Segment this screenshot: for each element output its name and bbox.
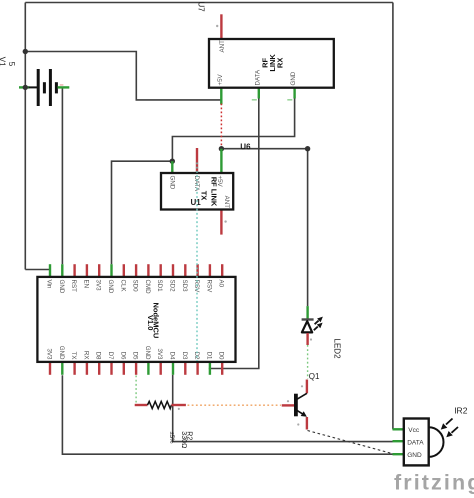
NodeMCU top pin 3V3 xyxy=(98,264,100,277)
svg-text:CMD: CMD xyxy=(144,280,151,295)
resistor R2 330 ohm xyxy=(135,401,193,448)
wire right +5V drop to IR2 Vcc xyxy=(392,3,394,430)
wire RF RX DATA down to NodeMCU D1 xyxy=(209,98,259,369)
svg-text:5: 5 xyxy=(7,62,16,67)
NodeMCU bottom pin D5 xyxy=(135,362,137,375)
junction node TX GND xyxy=(170,159,175,164)
svg-text:TX: TX xyxy=(70,352,77,360)
R2 pin mark xyxy=(178,408,180,410)
RF LINK TX module U1 xyxy=(161,148,233,235)
battery left lead xyxy=(29,86,38,88)
IR2 Vcc pin xyxy=(393,428,404,430)
svg-text:V1: V1 xyxy=(0,57,6,67)
battery plate short 1 xyxy=(43,82,46,93)
TX ANT pin xyxy=(220,210,222,235)
wire NodeMCU D4 to IR2 DATA xyxy=(173,375,393,442)
svg-text:GND: GND xyxy=(407,452,422,459)
R2 right lead xyxy=(171,404,186,406)
NodeMCU bottom pin D3 xyxy=(184,362,186,375)
wire down to LED2 anode xyxy=(307,149,309,306)
svg-text:3V3: 3V3 xyxy=(46,348,53,360)
svg-text:TX: TX xyxy=(200,191,209,201)
svg-text:GND: GND xyxy=(144,346,151,360)
Q1 bar xyxy=(294,394,298,417)
battery plate long 2 xyxy=(49,69,52,106)
svg-text:3V3: 3V3 xyxy=(156,348,163,360)
TX +5V pin xyxy=(220,149,222,173)
ratsnest green NodeMCU D5 to R2 xyxy=(135,376,137,404)
svg-text:ANT: ANT xyxy=(223,196,230,209)
svg-text:D8: D8 xyxy=(95,352,102,360)
R2 left lead xyxy=(135,404,148,406)
NodeMCU bottom pin D8 xyxy=(98,362,100,375)
NodeMCU bottom pin D0 xyxy=(221,362,223,375)
junction node U6 right xyxy=(305,146,310,151)
Q1 base pin xyxy=(282,404,294,406)
RF LINK RX module U7 xyxy=(197,2,334,105)
wire battery+ to Vin xyxy=(25,269,50,271)
NodeMCU bottom pin D1 xyxy=(209,362,211,375)
Q1 collector pin xyxy=(306,380,308,394)
svg-text:IR2: IR2 xyxy=(454,406,468,416)
NodeMCU bottom pin D2 xyxy=(196,362,198,375)
LED2 light arrow 2 xyxy=(314,327,318,331)
wire left vertical battery+ xyxy=(24,3,26,270)
svg-text:D7: D7 xyxy=(107,352,114,360)
svg-text:Vcc: Vcc xyxy=(408,427,420,434)
svg-text:330Ω: 330Ω xyxy=(180,431,187,448)
NodeMCU top pin RSV2 xyxy=(209,264,211,277)
svg-text:EN: EN xyxy=(82,280,89,289)
NodeMCU top pin A0 xyxy=(221,264,223,277)
ratsnest orange R2 to Q1 base xyxy=(188,404,281,406)
svg-text:RST: RST xyxy=(70,280,77,293)
TX ANT pin mark xyxy=(224,220,226,222)
NodeMCU top pin EN xyxy=(86,264,88,277)
NodeMCU top pin CLK xyxy=(123,264,125,277)
RX body box xyxy=(209,39,334,88)
svg-text:D3: D3 xyxy=(181,352,188,360)
NodeMCU bottom pin D4 xyxy=(172,362,174,375)
battery right green terminal xyxy=(58,86,70,88)
LED2 xyxy=(302,306,342,359)
svg-text:RSV: RSV xyxy=(205,280,212,294)
NodeMCU bottom pin 3V32 xyxy=(159,362,161,375)
battery left green terminal xyxy=(19,86,29,88)
svg-text:SD1: SD1 xyxy=(156,280,163,293)
TX DATA pin xyxy=(196,148,198,173)
NodeMCU top pin SD2 xyxy=(172,264,174,277)
svg-text:±5%: ±5% xyxy=(168,432,174,445)
NodeMCU bottom pin D6 xyxy=(123,362,125,375)
IR2 arrow 2 xyxy=(452,427,459,433)
LED2 light arrow 1 xyxy=(315,321,319,325)
RX ANT pin xyxy=(220,14,222,39)
NodeMCU bottom pin GND xyxy=(61,362,63,375)
Q1 emitter diagonal xyxy=(296,410,303,414)
IR2 arrow 1 xyxy=(446,419,453,425)
NodeMCU top pin Vin xyxy=(49,264,51,277)
ratsnest cyan TX DATA to NodeMCU D2 xyxy=(196,163,198,362)
svg-text:SD3: SD3 xyxy=(181,280,188,293)
svg-text:CLK: CLK xyxy=(119,280,126,293)
svg-text:D6: D6 xyxy=(119,352,126,360)
LED2 pin mark xyxy=(310,338,312,340)
battery plate long 1 xyxy=(37,69,40,106)
NodeMCU V1.0 module xyxy=(37,264,235,375)
IR2 body box xyxy=(404,419,429,466)
NodeMCU bottom pin GND2 xyxy=(147,362,149,375)
svg-text:GND: GND xyxy=(107,280,114,294)
LED2 cathode bar xyxy=(302,318,314,320)
Q1 emitter arrowhead xyxy=(301,411,307,417)
svg-text:RX: RX xyxy=(82,351,89,360)
junction node U6 left xyxy=(219,146,224,151)
TX GND pin xyxy=(171,161,173,173)
NodeMCU top pin SD1 xyxy=(159,264,161,277)
svg-text:D1: D1 xyxy=(205,352,212,360)
svg-text:GND: GND xyxy=(168,176,175,190)
svg-text:LED2: LED2 xyxy=(333,339,342,360)
IR2 DATA pin xyxy=(393,440,404,442)
svg-text:RF LINK: RF LINK xyxy=(209,177,218,207)
ratsnest black Q1 emitter to IR2 GND xyxy=(308,431,393,454)
svg-text:+5V: +5V xyxy=(217,73,224,85)
svg-text:A0: A0 xyxy=(218,280,225,288)
NodeMCU top pin CMD xyxy=(147,264,149,277)
svg-text:RX: RX xyxy=(275,58,284,68)
Q1 emitter pin xyxy=(306,417,308,430)
IR receiver IR2 xyxy=(393,406,468,466)
Q1 pin marks xyxy=(301,385,303,387)
ratsnest green LED2 cathode to Q1 collector xyxy=(307,345,309,379)
svg-text:fritzing: fritzing xyxy=(394,471,474,495)
svg-text:3V3: 3V3 xyxy=(95,280,102,292)
NodeMCU bottom pin D7 xyxy=(110,362,112,375)
NodeMCU top pin SD3 xyxy=(184,264,186,277)
R2 zigzag xyxy=(148,401,172,408)
wire NodeMCU GND bottom to IR2 GND xyxy=(62,375,392,454)
wire NodeMCU GND pin6 up xyxy=(112,161,173,264)
wire U6 net TX +5V to LED xyxy=(221,148,307,150)
svg-text:D5: D5 xyxy=(132,352,139,360)
NodeMCU top pin RST xyxy=(73,264,75,277)
svg-text:GND: GND xyxy=(290,71,297,85)
LED2 bottom pin xyxy=(306,333,308,345)
NodeMCU top pin SD0 xyxy=(135,264,137,277)
svg-text:GND: GND xyxy=(58,346,65,360)
svg-text:SD0: SD0 xyxy=(132,280,139,293)
NodeMCU top pin RSV1 xyxy=(196,264,198,277)
IR2 dome xyxy=(429,427,444,457)
IR2 GND pin xyxy=(393,453,404,455)
svg-text:U1: U1 xyxy=(191,198,202,207)
svg-text:U7: U7 xyxy=(197,2,206,13)
NodeMCU bottom pin 3V3 xyxy=(49,362,51,375)
NodeMCU top pin GND2 xyxy=(110,264,112,277)
svg-text:DATA: DATA xyxy=(254,69,261,85)
TX body box xyxy=(161,173,233,210)
svg-text:D0: D0 xyxy=(218,352,225,360)
RX +5V pin xyxy=(220,88,222,105)
wire RF RX GND down-left to TX GND xyxy=(172,98,294,161)
svg-text:GND: GND xyxy=(58,280,65,294)
RX GND wire end tick xyxy=(287,99,292,101)
junction node battery+ branch xyxy=(23,49,28,54)
NodeMCU bottom pin TX xyxy=(73,362,75,375)
RX DATA pin xyxy=(258,88,260,99)
NodeMCU top pin GND xyxy=(61,264,63,277)
RX GND pin xyxy=(293,88,295,99)
svg-text:D4: D4 xyxy=(169,352,176,360)
svg-text:U6: U6 xyxy=(240,142,251,151)
svg-text:Vin: Vin xyxy=(46,280,53,289)
Q1 collector diagonal xyxy=(296,393,307,400)
LED2 triangle xyxy=(302,321,312,332)
svg-text:V1.0: V1.0 xyxy=(146,315,155,330)
svg-text:Q1: Q1 xyxy=(309,372,320,381)
svg-text:ANT: ANT xyxy=(219,40,226,53)
svg-text:SD2: SD2 xyxy=(169,280,176,293)
NodeMCU bottom pin RX xyxy=(86,362,88,375)
LED2 top pin xyxy=(306,306,308,320)
battery plate short 2 xyxy=(55,82,58,93)
wire +5V branch to RF RX +5V xyxy=(25,52,221,100)
RX DATA wire end tick xyxy=(252,99,257,101)
NodeMCU body box xyxy=(37,277,235,362)
svg-text:DATA: DATA xyxy=(407,440,424,447)
junction node battery+ terminal xyxy=(23,85,28,90)
ratsnest red RX+5V to U6 xyxy=(220,104,222,148)
wire top +5V rail xyxy=(25,2,393,4)
RX pin mark xyxy=(216,25,218,27)
battery minus mark xyxy=(60,84,64,85)
wire battery- down to NodeMCU GND top xyxy=(61,87,63,264)
transistor Q1 xyxy=(282,372,320,430)
battery V1 xyxy=(0,57,69,106)
